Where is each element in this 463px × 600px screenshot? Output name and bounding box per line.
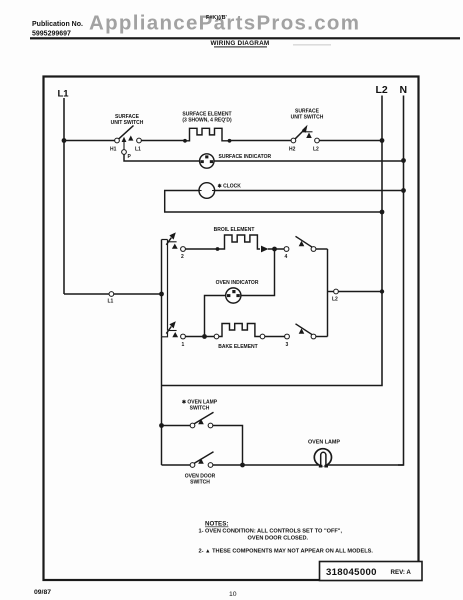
oven lamp switch label [182, 400, 218, 412]
svg-text:OVEN DOOR CLOSED.: OVEN DOOR CLOSED. [248, 536, 309, 542]
svg-text:2: 2 [181, 254, 184, 260]
junction broil row / indicator drop [272, 247, 277, 252]
surface element resistor [185, 128, 230, 141]
svg-text:F#K)(/B': F#K)(/B' [206, 15, 228, 21]
note marker triangle contact 4 [299, 241, 305, 247]
oven indicator lamp [226, 288, 241, 303]
svg-text:WIRING DIAGRAM: WIRING DIAGRAM [211, 40, 270, 47]
footer date 09/87 [34, 589, 51, 596]
note marker triangle contact 3 [299, 328, 305, 334]
surface unit switch SW1 label [111, 114, 144, 126]
surface element terminal dot left [183, 139, 187, 143]
svg-text:2- ▲ THESE COMPONENTS MAY NOT: 2- ▲ THESE COMPONENTS MAY NOT APPEAR ON … [199, 549, 374, 555]
wire contact4 to right rail [316, 248, 328, 250]
surface indicator lamp [200, 154, 214, 168]
svg-text:SURFACE INDICATOR: SURFACE INDICATOR [219, 154, 272, 160]
note marker triangle SW1 [128, 136, 133, 141]
junction row3 / N bus [401, 188, 406, 193]
wire P to indicator [124, 154, 200, 161]
svg-text:4: 4 [285, 254, 288, 260]
terminal L1 oven feed [64, 292, 162, 305]
contact 2 [181, 247, 186, 260]
svg-text:BROIL ELEMENT: BROIL ELEMENT [214, 227, 255, 233]
svg-text:H1: H1 [110, 147, 117, 153]
svg-text:UNIT SWITCH: UNIT SWITCH [291, 115, 324, 121]
surface element terminal dot right [228, 139, 232, 143]
junction row2 / N bus [401, 158, 406, 163]
wire left rail to door switch [162, 464, 191, 466]
pin L2 label [313, 147, 319, 153]
contact 4 [284, 247, 289, 260]
pin L1 label [135, 147, 141, 153]
wire clock to N bus [215, 190, 404, 192]
broil element label [214, 227, 255, 233]
wire bake element to contact 3 [265, 336, 285, 338]
svg-text:L2: L2 [313, 147, 319, 153]
contact 1 [181, 334, 186, 348]
wire L2 bus vertical [162, 96, 383, 386]
oven lamp [314, 449, 331, 468]
switch blade contact 4 [296, 236, 313, 247]
wire contact1 to bake element [185, 336, 214, 338]
SW1 pilot arm arrow to P [122, 137, 127, 150]
svg-text:09/87: 09/87 [34, 589, 51, 596]
bake element label [218, 344, 257, 350]
wire indicator right lead to broil row [241, 249, 275, 296]
clock label [218, 183, 242, 189]
note marker triangle contact 1 [172, 332, 178, 337]
surface unit switch SW2 label [291, 109, 324, 121]
note marker triangle door switch [198, 458, 204, 464]
notes heading [205, 521, 228, 528]
contact 3 right pivot [311, 334, 316, 339]
svg-text:318045000: 318045000 [326, 567, 377, 578]
svg-text:L2: L2 [376, 84, 388, 96]
wire L1 contact to surface element [141, 140, 185, 142]
svg-text:5995299697: 5995299697 [32, 31, 71, 38]
wire contact2 to broil element [185, 248, 217, 250]
note marker triangle contact 2 [172, 244, 178, 249]
clock [199, 183, 215, 199]
svg-text:UNIT SWITCH: UNIT SWITCH [111, 120, 144, 126]
wire broil arrow to contact 4 [268, 248, 284, 250]
note marker triangle lamp switch [198, 419, 204, 425]
node L2 label [376, 84, 388, 96]
wire oven right rail [327, 249, 329, 337]
svg-text:10: 10 [229, 591, 237, 598]
broil arrow marker [261, 246, 269, 253]
wire left rail to lamp switch [162, 425, 191, 427]
svg-text:REV: A: REV: A [391, 569, 412, 576]
svg-text:L1: L1 [135, 147, 141, 153]
wire contact3 to right rail [316, 336, 328, 338]
border frame [44, 77, 419, 581]
svg-text:N: N [400, 84, 408, 96]
svg-text:NOTES:: NOTES: [205, 521, 228, 528]
surface indicator label [219, 154, 272, 160]
wire oven lamp to N bus [326, 464, 404, 466]
junction clock loop / L2 bus [380, 210, 385, 215]
title WIRING DIAGRAM [211, 40, 331, 47]
svg-text:1- OVEN CONDITION: ALL CONTROL: 1- OVEN CONDITION: ALL CONTROLS SET TO "… [199, 529, 343, 535]
switch blade contact 3 [296, 324, 313, 335]
model number tiny text [206, 15, 228, 21]
svg-text:(3 SHOWN, 4 REQ'D): (3 SHOWN, 4 REQ'D) [182, 118, 232, 124]
svg-text:3: 3 [286, 342, 289, 348]
svg-text:L1: L1 [108, 299, 114, 305]
svg-text:OVEN INDICATOR: OVEN INDICATOR [216, 280, 259, 286]
note 1 [199, 529, 343, 542]
note marker triangle SW2 [306, 133, 312, 139]
junction bake row / indicator drop [202, 334, 207, 339]
thermostat bake blade arrow [166, 321, 176, 333]
junction row1 / L2 bus [380, 138, 385, 143]
wire clock return loop to L2 bus [165, 191, 382, 213]
header rule [30, 37, 460, 39]
junction L1 feed / thermostat bar [159, 292, 164, 297]
bake element terminal right [260, 334, 265, 339]
wire left rail thermostat to door switch [161, 337, 163, 465]
oven indicator label [216, 280, 259, 286]
pin H2 label [289, 147, 296, 153]
wire N bus vertical [398, 96, 404, 466]
surface unit switch SW2 [291, 125, 319, 143]
surface element label [182, 112, 232, 124]
svg-text:SWITCH: SWITCH [190, 480, 210, 486]
svg-text:H2: H2 [289, 147, 296, 153]
svg-text:Publication No.: Publication No. [32, 21, 83, 28]
node N label [400, 84, 408, 96]
oven lamp switch [190, 412, 213, 428]
contact 4 right pivot [311, 247, 316, 252]
wire element to H2 [230, 140, 292, 142]
svg-text:L1: L1 [58, 89, 70, 100]
wire indicator left lead to bake row [205, 296, 226, 337]
junction left rail / lamp switch [159, 423, 164, 428]
bake element resistor [219, 324, 261, 337]
oven thermostat body bar [162, 240, 177, 337]
svg-text:L2: L2 [332, 297, 338, 303]
junction door switch / lamp drop [240, 463, 245, 468]
thermostat broil blade arrow [166, 232, 176, 244]
footer page number 10 [229, 591, 237, 598]
pin H1 label [110, 147, 117, 153]
note 2 [199, 549, 374, 555]
svg-text:SWITCH: SWITCH [190, 406, 210, 412]
svg-text:1: 1 [182, 342, 185, 348]
contact 3 [285, 334, 290, 348]
wire L1 bus vertical [63, 98, 65, 294]
broil element resistor [218, 235, 261, 249]
svg-text:OVEN LAMP: OVEN LAMP [308, 439, 340, 445]
surface unit switch SW1 [115, 126, 142, 143]
junction L1 bus / row1 [62, 138, 67, 143]
terminal L2 oven [328, 289, 383, 302]
wire lamp switch to right drop [213, 426, 243, 466]
watermark AppliancePartsPros.com [89, 12, 360, 35]
svg-text:P: P [128, 154, 132, 160]
part number box 318045000 [320, 562, 423, 581]
broil element terminal dot left [216, 247, 220, 251]
publication number block [32, 21, 83, 38]
wire door switch to oven lamp [213, 464, 319, 466]
bake element terminal left [214, 334, 219, 339]
wire indicator to N bus [214, 160, 404, 162]
oven door switch [190, 452, 213, 468]
wire L2 contact to L2 bus [319, 140, 382, 142]
svg-text:BAKE ELEMENT: BAKE ELEMENT [218, 344, 257, 350]
node L1 label [58, 89, 70, 100]
svg-text:✱ CLOCK: ✱ CLOCK [218, 183, 242, 189]
junction oven L2 / L2 bus [380, 289, 384, 293]
oven door switch label [185, 474, 216, 486]
wire L1 bus to H1 [64, 140, 115, 142]
pin P terminal [122, 150, 132, 160]
oven lamp label [308, 439, 340, 445]
